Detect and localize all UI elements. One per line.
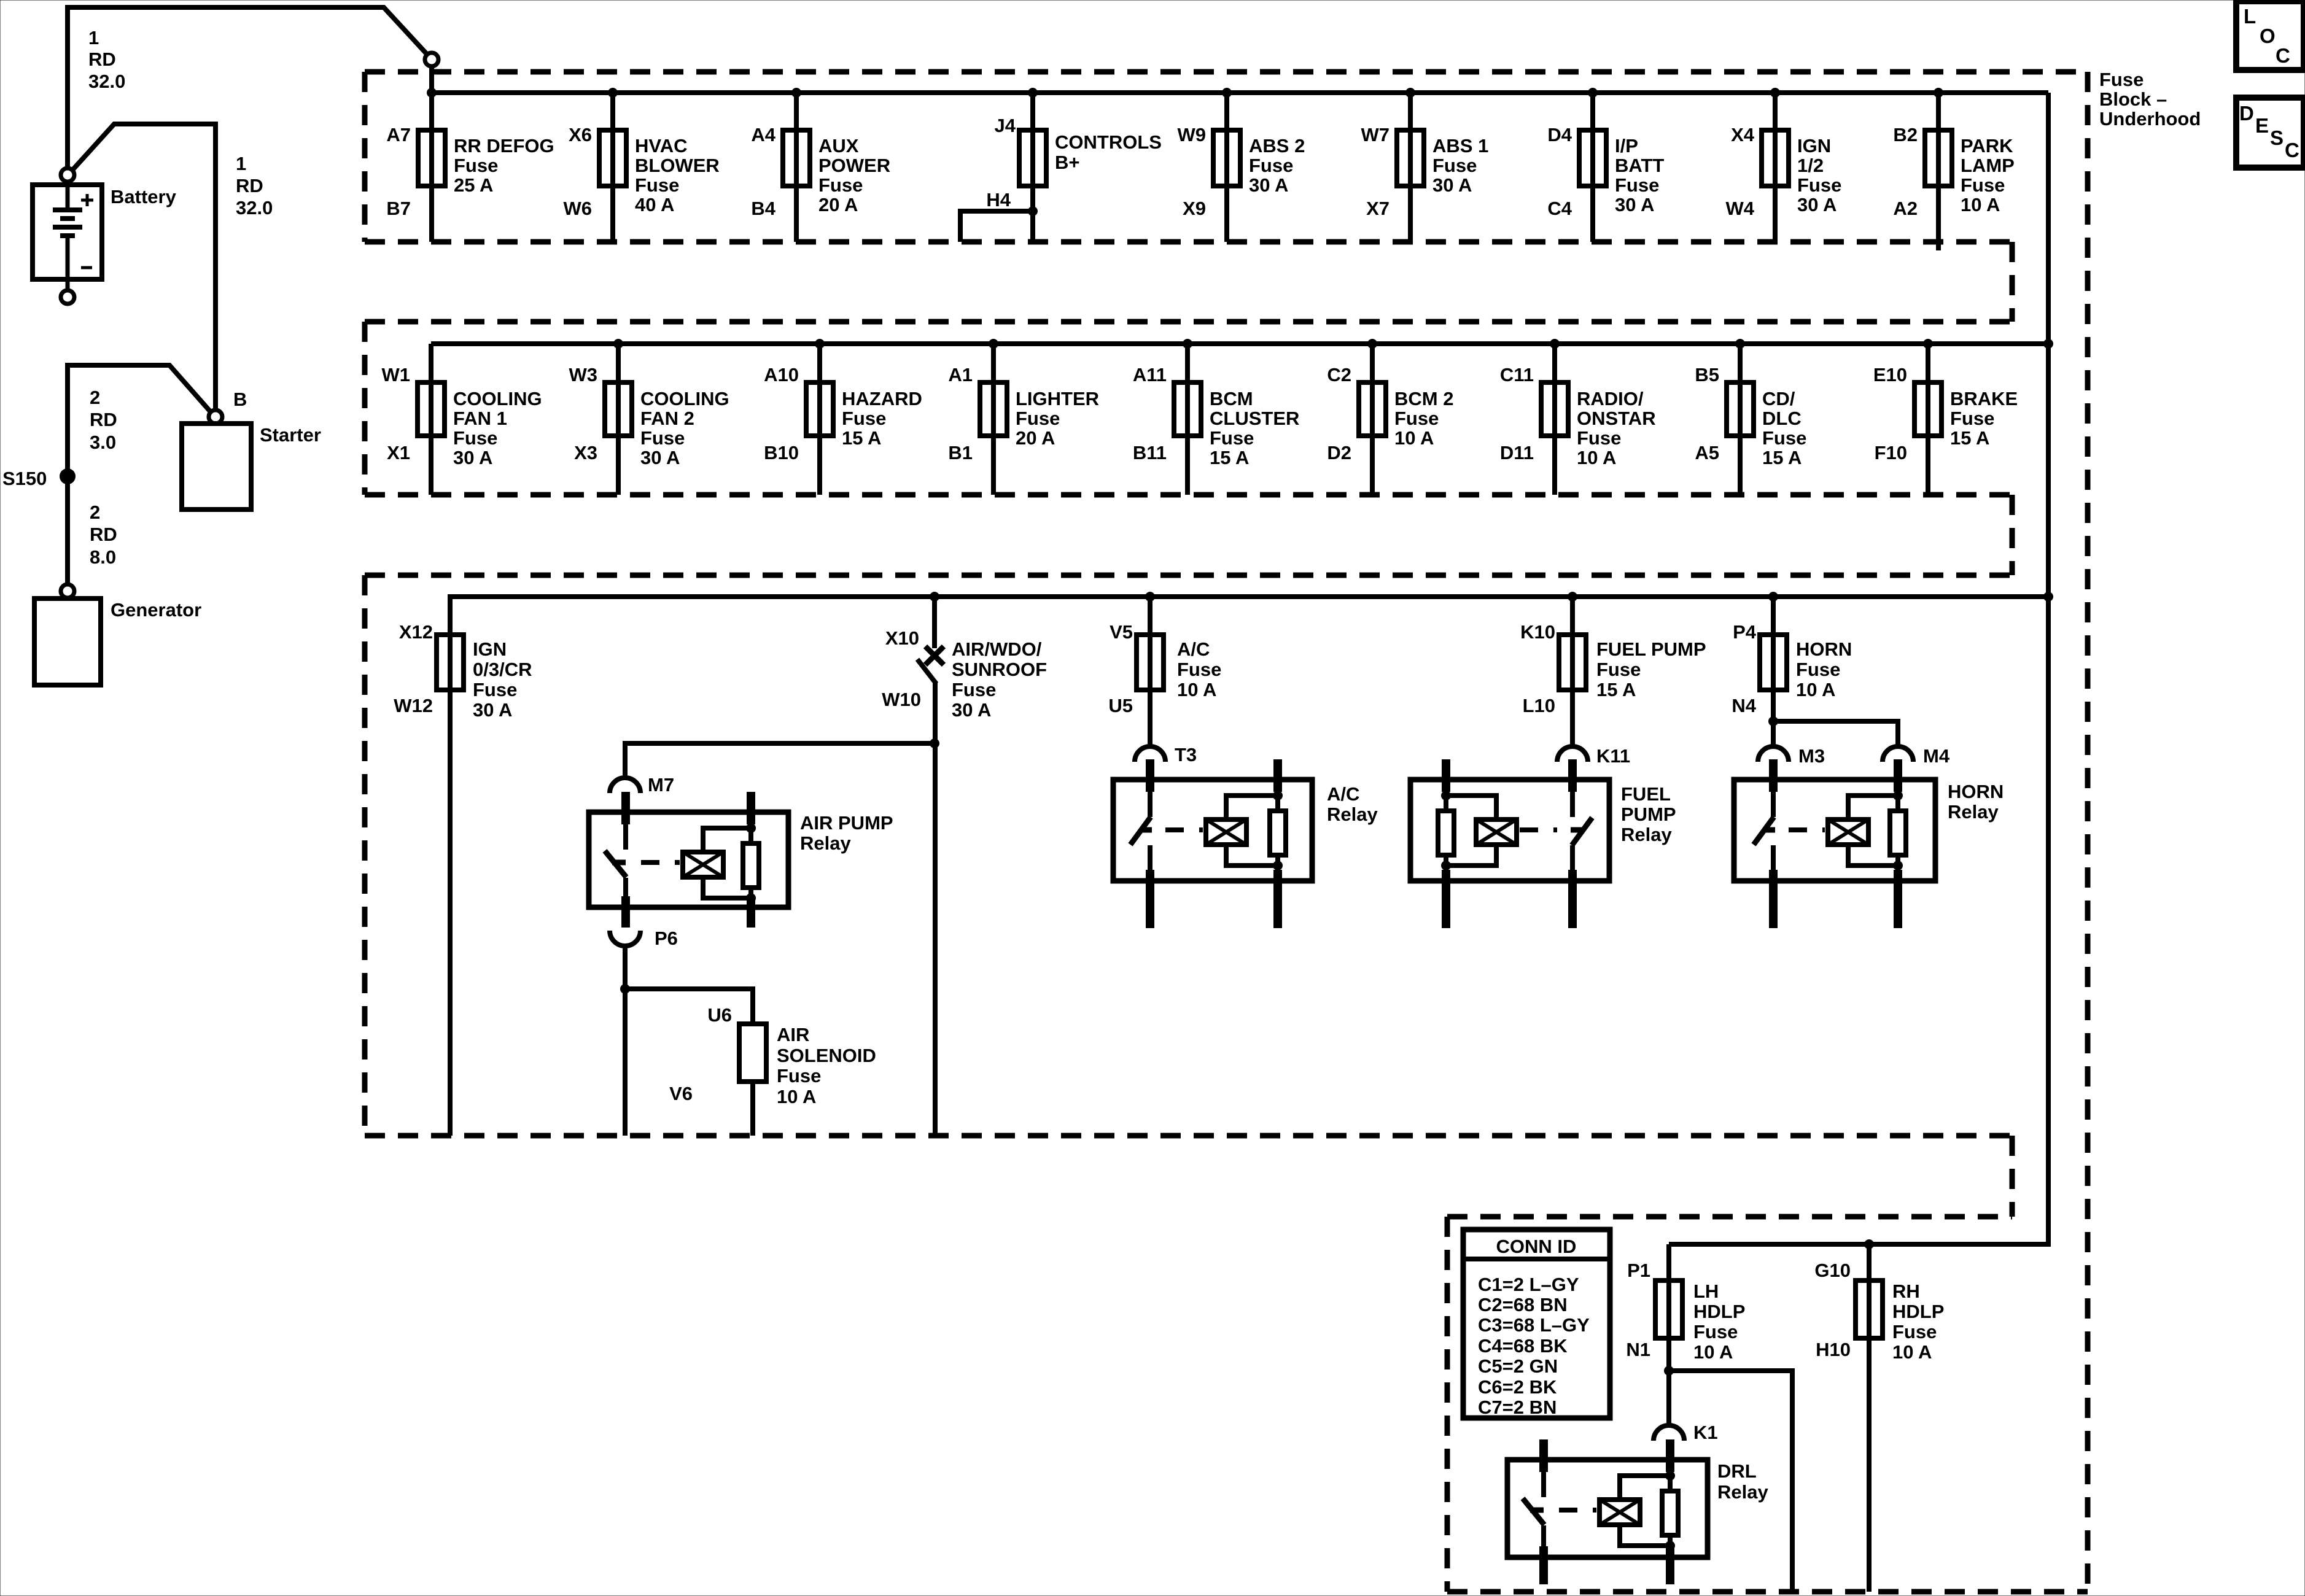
svg-text:10 A: 10 A <box>1394 427 1434 449</box>
fuse A/C 10A (V5/U5) <box>1108 592 1221 745</box>
svg-text:25 A: 25 A <box>454 174 493 196</box>
svg-text:Fuse: Fuse <box>1892 1321 1937 1342</box>
svg-text:15 A: 15 A <box>1596 679 1636 700</box>
svg-text:X12: X12 <box>399 621 433 643</box>
svg-text:DRL: DRL <box>1717 1460 1757 1482</box>
svg-text:AIR/WDO/: AIR/WDO/ <box>952 638 1042 660</box>
svg-text:Relay: Relay <box>800 832 851 854</box>
svg-text:Fuse: Fuse <box>473 679 517 700</box>
generator terminal circle <box>61 584 74 598</box>
svg-text:10 A: 10 A <box>1961 194 2000 215</box>
svg-text:L10: L10 <box>1523 695 1555 716</box>
svg-text:Fuse: Fuse <box>1762 427 1806 449</box>
svg-text:X7: X7 <box>1366 198 1390 219</box>
svg-text:15 A: 15 A <box>1210 447 1249 468</box>
svg-text:W12: W12 <box>394 695 433 716</box>
fuse block boundary top edge <box>365 69 2088 75</box>
svg-text:W4: W4 <box>1726 198 1755 219</box>
svg-text:Fuse: Fuse <box>1615 174 1659 196</box>
fuse ABS 2 30A (W9/X9) <box>1178 88 1305 242</box>
svg-text:K1: K1 <box>1693 1422 1718 1443</box>
svg-text:LIGHTER: LIGHTER <box>1016 388 1099 409</box>
svg-text:RD: RD <box>90 409 117 430</box>
fuse block row2 top edge <box>365 319 2012 325</box>
svg-text:C7=2 BN: C7=2 BN <box>1478 1396 1557 1418</box>
svg-text:FAN 1: FAN 1 <box>453 408 507 429</box>
svg-text:B4: B4 <box>751 198 775 219</box>
svg-text:C: C <box>2285 139 2299 161</box>
svg-text:20 A: 20 A <box>818 194 858 215</box>
svg-text:BRAKE: BRAKE <box>1950 388 2018 409</box>
connector M7 <box>610 774 674 796</box>
junction LH HDLP output <box>1664 1366 1674 1376</box>
svg-text:A10: A10 <box>764 364 799 385</box>
svg-text:CONN ID: CONN ID <box>1496 1236 1577 1257</box>
svg-text:Fuse: Fuse <box>1432 155 1477 176</box>
fuse COOLING FAN 1 30A (W1/X1) <box>382 344 542 495</box>
svg-text:H4: H4 <box>986 189 1011 211</box>
svg-text:X1: X1 <box>387 442 410 463</box>
circuit breaker AIR/WDO/SUNROOF 30A (X10/W10) <box>882 592 1047 1136</box>
fuse AIR SOLENOID 10A (U6/V6) <box>669 1004 876 1136</box>
svg-text:Fuse: Fuse <box>1693 1321 1738 1342</box>
svg-text:Fuse: Fuse <box>952 679 996 700</box>
svg-text:U5: U5 <box>1108 695 1133 716</box>
svg-text:S150: S150 <box>2 468 47 489</box>
svg-text:AIR: AIR <box>777 1024 809 1045</box>
fuse IGN 0/3/CR 30A (X12/W12) <box>394 621 532 721</box>
svg-text:N1: N1 <box>1626 1339 1650 1360</box>
relay A/C Relay <box>1113 759 1378 928</box>
svg-text:P6: P6 <box>655 928 678 949</box>
svg-text:A2: A2 <box>1893 198 1918 219</box>
fuse block row1 left edge <box>362 72 368 242</box>
splice S150 <box>2 468 76 489</box>
svg-text:Fuse: Fuse <box>1210 427 1254 449</box>
svg-text:ABS 1: ABS 1 <box>1432 135 1488 157</box>
battery Battery <box>33 182 177 290</box>
fuse IGN 1/2 30A (X4/W4) <box>1726 88 1842 242</box>
svg-text:Fuse: Fuse <box>1577 427 1621 449</box>
svg-text:RR DEFOG: RR DEFOG <box>454 135 554 157</box>
wire row3 bus <box>450 597 2048 1136</box>
svg-text:K11: K11 <box>1596 745 1630 767</box>
fuse RR DEFOG 25A (A7/B7) <box>386 88 554 242</box>
svg-text:0/3/CR: 0/3/CR <box>473 659 532 680</box>
svg-text:M3: M3 <box>1798 745 1825 767</box>
svg-text:D11: D11 <box>1500 442 1534 463</box>
junction feeder row3 <box>2043 592 2053 602</box>
fuse BCM 2 10A (C2/D2) <box>1327 339 1453 495</box>
svg-text:C4: C4 <box>1547 198 1572 219</box>
fuse block boundary outer right edge <box>2085 72 2091 1592</box>
fuse PARK LAMP 10A (B2/A2) <box>1893 88 2014 250</box>
svg-text:C2: C2 <box>1327 364 1351 385</box>
svg-text:CONTROLS: CONTROLS <box>1055 131 1162 153</box>
svg-text:RH: RH <box>1892 1280 1920 1302</box>
svg-text:C: C <box>2276 44 2290 67</box>
wire X10 branch to M7 <box>625 743 935 778</box>
svg-text:30 A: 30 A <box>640 447 680 468</box>
svg-text:1/2: 1/2 <box>1797 155 1824 176</box>
svg-text:X4: X4 <box>1731 124 1755 145</box>
fuse BRAKE 15A (E10/F10) <box>1873 339 2018 495</box>
junction RH HDLP feed <box>1864 1239 1874 1249</box>
svg-text:Fuse: Fuse <box>842 408 886 429</box>
wire starter to S150 (2 RD 3.0) <box>68 365 211 476</box>
svg-text:A/C: A/C <box>1327 783 1359 805</box>
svg-text:A1: A1 <box>948 364 973 385</box>
svg-text:B2: B2 <box>1893 124 1918 145</box>
svg-text:B5: B5 <box>1695 364 1719 385</box>
svg-text:30 A: 30 A <box>453 447 492 468</box>
svg-text:Generator: Generator <box>111 599 201 621</box>
fuse LIGHTER 20A (A1/B1) <box>948 339 1099 495</box>
svg-text:W7: W7 <box>1361 124 1390 145</box>
svg-text:U6: U6 <box>707 1004 732 1026</box>
svg-text:Fuse: Fuse <box>1249 155 1293 176</box>
svg-text:POWER: POWER <box>818 155 890 176</box>
fuse CONTROLS B+ (J4/H4) <box>986 88 1162 242</box>
svg-text:32.0: 32.0 <box>236 197 273 219</box>
svg-text:D: D <box>2239 102 2254 125</box>
fuse block row4 bottom edge <box>1447 1589 2088 1595</box>
svg-text:Fuse: Fuse <box>1394 408 1439 429</box>
svg-text:CLUSTER: CLUSTER <box>1210 408 1299 429</box>
svg-text:V5: V5 <box>1110 621 1133 643</box>
svg-text:E10: E10 <box>1873 364 1907 385</box>
battery negative terminal circle <box>61 290 74 304</box>
junction X10 branch <box>930 738 939 748</box>
fuse FUEL PUMP 15A (K10/L10) <box>1520 592 1706 745</box>
label Fuse Block - Underhood <box>2099 69 2201 130</box>
fuse BCM CLUSTER 15A (A11/B11) <box>1133 339 1300 495</box>
svg-text:H10: H10 <box>1816 1339 1851 1360</box>
svg-text:1: 1 <box>88 27 99 48</box>
svg-text:B11: B11 <box>1133 442 1167 463</box>
wire H4 hook <box>960 211 1033 242</box>
svg-text:Fuse: Fuse <box>635 174 679 196</box>
svg-text:Block –: Block – <box>2099 88 2167 110</box>
starter Starter <box>182 424 321 509</box>
svg-text:C3=68 L–GY: C3=68 L–GY <box>1478 1314 1590 1336</box>
box DESC <box>2236 98 2304 168</box>
fuse block jog row3-row4 <box>2010 1136 2015 1217</box>
fuse AUX POWER 20A (A4/B4) <box>751 88 890 242</box>
connector T3 <box>1135 744 1197 765</box>
svg-text:PUMP: PUMP <box>1621 804 1676 825</box>
svg-text:C5=2 GN: C5=2 GN <box>1478 1355 1558 1377</box>
svg-text:40 A: 40 A <box>635 194 674 215</box>
connector M3 <box>1758 745 1825 767</box>
wire battery to starter (1 RD 32.0) <box>72 124 216 410</box>
svg-text:15 A: 15 A <box>1762 447 1802 468</box>
svg-text:X9: X9 <box>1183 198 1206 219</box>
svg-text:20 A: 20 A <box>1016 427 1055 449</box>
fuse block row1 bottom edge <box>365 239 2012 245</box>
svg-text:Starter: Starter <box>260 424 321 446</box>
svg-text:W6: W6 <box>564 198 593 219</box>
fuse block row3 left edge <box>362 575 368 1136</box>
svg-text:C6=2 BK: C6=2 BK <box>1478 1376 1557 1398</box>
svg-text:COOLING: COOLING <box>640 388 729 409</box>
svg-text:Fuse: Fuse <box>1596 659 1641 680</box>
svg-text:COOLING: COOLING <box>453 388 542 409</box>
connector K1 <box>1654 1422 1718 1443</box>
junction HORN fuse output <box>1768 716 1778 726</box>
svg-text:BATT: BATT <box>1615 155 1664 176</box>
svg-text:AUX: AUX <box>818 135 859 157</box>
svg-text:10 A: 10 A <box>1177 679 1216 700</box>
svg-text:FUEL PUMP: FUEL PUMP <box>1596 638 1706 660</box>
svg-text:B7: B7 <box>386 198 411 219</box>
svg-text:L: L <box>2244 5 2256 28</box>
svg-text:Relay: Relay <box>1948 801 1999 823</box>
svg-text:C2=68 BN: C2=68 BN <box>1478 1294 1568 1315</box>
svg-text:15 A: 15 A <box>1950 427 1989 449</box>
label wire 2 RD 3.0 <box>90 387 117 453</box>
fuse block row3 bottom edge <box>365 1133 2012 1139</box>
svg-text:IGN: IGN <box>1797 135 1831 157</box>
svg-text:HDLP: HDLP <box>1693 1301 1745 1322</box>
fuse HAZARD 15A (A10/B10) <box>764 339 922 495</box>
svg-text:Fuse: Fuse <box>640 427 685 449</box>
svg-text:ONSTAR: ONSTAR <box>1577 408 1656 429</box>
fuse block row2 bottom edge <box>365 492 2012 498</box>
svg-text:B+: B+ <box>1055 152 1080 173</box>
wire row2 bus <box>431 341 2048 346</box>
svg-text:10 A: 10 A <box>777 1086 816 1107</box>
svg-text:HDLP: HDLP <box>1892 1301 1944 1322</box>
svg-text:W10: W10 <box>882 689 921 710</box>
svg-text:W1: W1 <box>382 364 411 385</box>
svg-text:Fuse: Fuse <box>1797 174 1841 196</box>
svg-text:N4: N4 <box>1732 695 1756 716</box>
fuse block row4 left edge <box>1445 1217 1450 1592</box>
fuse LH HDLP 10A (P1/N1) <box>1626 1244 1745 1424</box>
svg-text:BCM 2: BCM 2 <box>1394 388 1453 409</box>
svg-text:K10: K10 <box>1520 621 1555 643</box>
svg-text:Fuse: Fuse <box>1961 174 2005 196</box>
svg-text:X3: X3 <box>574 442 597 463</box>
svg-text:DLC: DLC <box>1762 408 1802 429</box>
svg-text:Fuse: Fuse <box>1016 408 1060 429</box>
svg-text:B10: B10 <box>764 442 799 463</box>
svg-text:15 A: 15 A <box>842 427 881 449</box>
svg-text:CD/: CD/ <box>1762 388 1795 409</box>
svg-text:RADIO/: RADIO/ <box>1577 388 1644 409</box>
svg-text:Relay: Relay <box>1621 824 1672 845</box>
svg-text:C4=68 BK: C4=68 BK <box>1478 1335 1568 1357</box>
svg-text:1: 1 <box>236 153 246 174</box>
svg-text:HVAC: HVAC <box>635 135 688 157</box>
svg-text:HORN: HORN <box>1948 781 2004 802</box>
wire P6 to air solenoid fuse <box>623 946 628 1136</box>
fuse block jog row1-row2 <box>2010 242 2015 322</box>
fuse RH HDLP 10A (G10/H10) <box>1814 1244 1944 1592</box>
svg-text:C11: C11 <box>1500 364 1534 385</box>
fuse CD/DLC 15A (B5/A5) <box>1695 339 1806 495</box>
svg-text:M4: M4 <box>1923 745 1950 767</box>
svg-text:A5: A5 <box>1695 442 1719 463</box>
connector circle at fuse block feed <box>425 53 438 66</box>
svg-text:2: 2 <box>90 387 100 408</box>
svg-text:AIR PUMP: AIR PUMP <box>800 812 893 834</box>
svg-text:FAN 2: FAN 2 <box>640 408 694 429</box>
svg-text:BCM: BCM <box>1210 388 1253 409</box>
svg-text:D4: D4 <box>1547 124 1572 145</box>
wire S150 to generator (2 RD 8.0) <box>65 476 70 584</box>
svg-text:O: O <box>2260 25 2276 47</box>
svg-text:C1=2 L–GY: C1=2 L–GY <box>1478 1274 1579 1295</box>
svg-text:Fuse: Fuse <box>818 174 863 196</box>
svg-text:8.0: 8.0 <box>90 546 116 568</box>
svg-text:RD: RD <box>88 48 116 70</box>
svg-text:A11: A11 <box>1133 364 1167 385</box>
svg-text:30 A: 30 A <box>1249 174 1288 196</box>
battery positive terminal circle <box>61 168 74 182</box>
svg-text:A7: A7 <box>386 124 411 145</box>
fuse block row3 top edge <box>365 573 2012 578</box>
svg-text:10 A: 10 A <box>1796 679 1835 700</box>
svg-text:X6: X6 <box>569 124 592 145</box>
svg-text:X10: X10 <box>885 627 919 649</box>
svg-text:V6: V6 <box>669 1083 693 1104</box>
fuse block row2 left edge <box>362 322 368 495</box>
fuse HORN 10A (P4/N4) <box>1732 592 1852 745</box>
svg-text:F10: F10 <box>1875 442 1907 463</box>
fuse ABS 1 30A (W7/X7) <box>1361 88 1489 242</box>
svg-text:Battery: Battery <box>111 186 177 207</box>
label wire 1 RD 32.0 (starter feed) <box>236 153 273 219</box>
junction air solenoid branch <box>620 984 630 994</box>
svg-text:Fuse: Fuse <box>777 1065 821 1087</box>
svg-text:A4: A4 <box>751 124 775 145</box>
fuse block row4 top edge <box>1447 1214 2012 1220</box>
svg-text:Fuse: Fuse <box>1177 659 1221 680</box>
svg-text:30 A: 30 A <box>952 699 991 721</box>
junction feeder row2 <box>2043 339 2053 349</box>
wire HORN branch to M4 <box>1773 721 1898 745</box>
svg-text:3.0: 3.0 <box>90 432 116 453</box>
svg-text:10 A: 10 A <box>1892 1341 1932 1363</box>
svg-text:D2: D2 <box>1327 442 1351 463</box>
svg-text:S: S <box>2270 126 2284 149</box>
svg-text:30 A: 30 A <box>1797 194 1837 215</box>
fuse HVAC BLOWER 40A (X6/W6) <box>564 88 720 242</box>
wire row1 bus B+ <box>432 90 2048 95</box>
svg-text:HORN: HORN <box>1796 638 1852 660</box>
svg-text:2: 2 <box>90 502 100 523</box>
svg-text:30 A: 30 A <box>1615 194 1654 215</box>
svg-text:Fuse: Fuse <box>453 427 497 449</box>
svg-text:LAMP: LAMP <box>1961 155 2015 176</box>
wire main feeder right side <box>1669 93 2048 1244</box>
connector P6 <box>610 928 678 949</box>
box LOC <box>2236 1 2304 70</box>
svg-text:10 A: 10 A <box>1693 1341 1733 1363</box>
svg-text:P4: P4 <box>1733 621 1757 643</box>
svg-text:BLOWER: BLOWER <box>635 155 720 176</box>
svg-text:Relay: Relay <box>1717 1481 1768 1503</box>
svg-text:LH: LH <box>1693 1280 1719 1302</box>
svg-text:W3: W3 <box>569 364 598 385</box>
wire LH HDLP branch <box>1669 1371 1792 1592</box>
svg-text:I/P: I/P <box>1615 135 1638 157</box>
svg-text:E: E <box>2255 114 2269 137</box>
svg-text:P1: P1 <box>1627 1260 1650 1281</box>
svg-text:Fuse: Fuse <box>2099 69 2144 90</box>
svg-text:SUNROOF: SUNROOF <box>952 659 1047 680</box>
svg-text:HAZARD: HAZARD <box>842 388 922 409</box>
starter terminal circle B <box>209 410 222 424</box>
table CONN ID <box>1463 1230 1610 1418</box>
svg-text:Fuse: Fuse <box>454 155 498 176</box>
svg-text:10 A: 10 A <box>1577 447 1616 468</box>
svg-text:Fuse: Fuse <box>1796 659 1840 680</box>
relay AIR PUMP Relay <box>589 792 893 928</box>
fuse block jog row2-row3 <box>2010 495 2015 575</box>
connector M4 <box>1883 745 1950 767</box>
svg-text:Underhood: Underhood <box>2099 108 2201 130</box>
relay HORN Relay <box>1734 759 2004 928</box>
connector K11 <box>1557 745 1630 767</box>
fuse RADIO/ONSTAR 10A (C11/D11) <box>1500 339 1656 495</box>
relay FUEL PUMP Relay <box>1410 759 1676 928</box>
svg-text:B: B <box>233 389 247 410</box>
svg-text:M7: M7 <box>648 774 674 796</box>
label terminal B <box>233 389 247 410</box>
svg-text:A/C: A/C <box>1177 638 1210 660</box>
svg-text:32.0: 32.0 <box>88 71 125 92</box>
svg-text:W9: W9 <box>1178 124 1207 145</box>
svg-text:Fuse: Fuse <box>1950 408 1994 429</box>
label wire 1 RD 32.0 (battery feed) <box>88 27 125 92</box>
generator Generator <box>34 598 201 685</box>
svg-text:FUEL: FUEL <box>1621 783 1671 805</box>
svg-text:IGN: IGN <box>473 638 507 660</box>
svg-text:B1: B1 <box>948 442 973 463</box>
svg-text:G10: G10 <box>1814 1260 1851 1281</box>
svg-text:30 A: 30 A <box>473 699 512 721</box>
fuse I/P BATT 30A (D4/C4) <box>1547 88 1664 242</box>
svg-text:J4: J4 <box>995 115 1016 136</box>
svg-text:SOLENOID: SOLENOID <box>777 1045 876 1066</box>
label wire 2 RD 8.0 <box>90 502 117 568</box>
svg-text:30 A: 30 A <box>1432 174 1472 196</box>
svg-text:T3: T3 <box>1175 744 1197 765</box>
svg-text:Relay: Relay <box>1327 804 1378 825</box>
wire branch to AIR SOLENOID fuse <box>625 989 753 1024</box>
svg-text:ABS 2: ABS 2 <box>1249 135 1305 157</box>
wire fuse block feed drop <box>429 66 434 93</box>
wire battery positive to fuse block (1 RD 32.0) <box>68 7 427 168</box>
svg-text:PARK: PARK <box>1961 135 2013 157</box>
svg-text:RD: RD <box>90 524 117 545</box>
relay DRL Relay <box>1507 1439 1768 1584</box>
fuse COOLING FAN 2 30A (W3/X3) <box>569 339 729 495</box>
svg-text:RD: RD <box>236 175 263 196</box>
